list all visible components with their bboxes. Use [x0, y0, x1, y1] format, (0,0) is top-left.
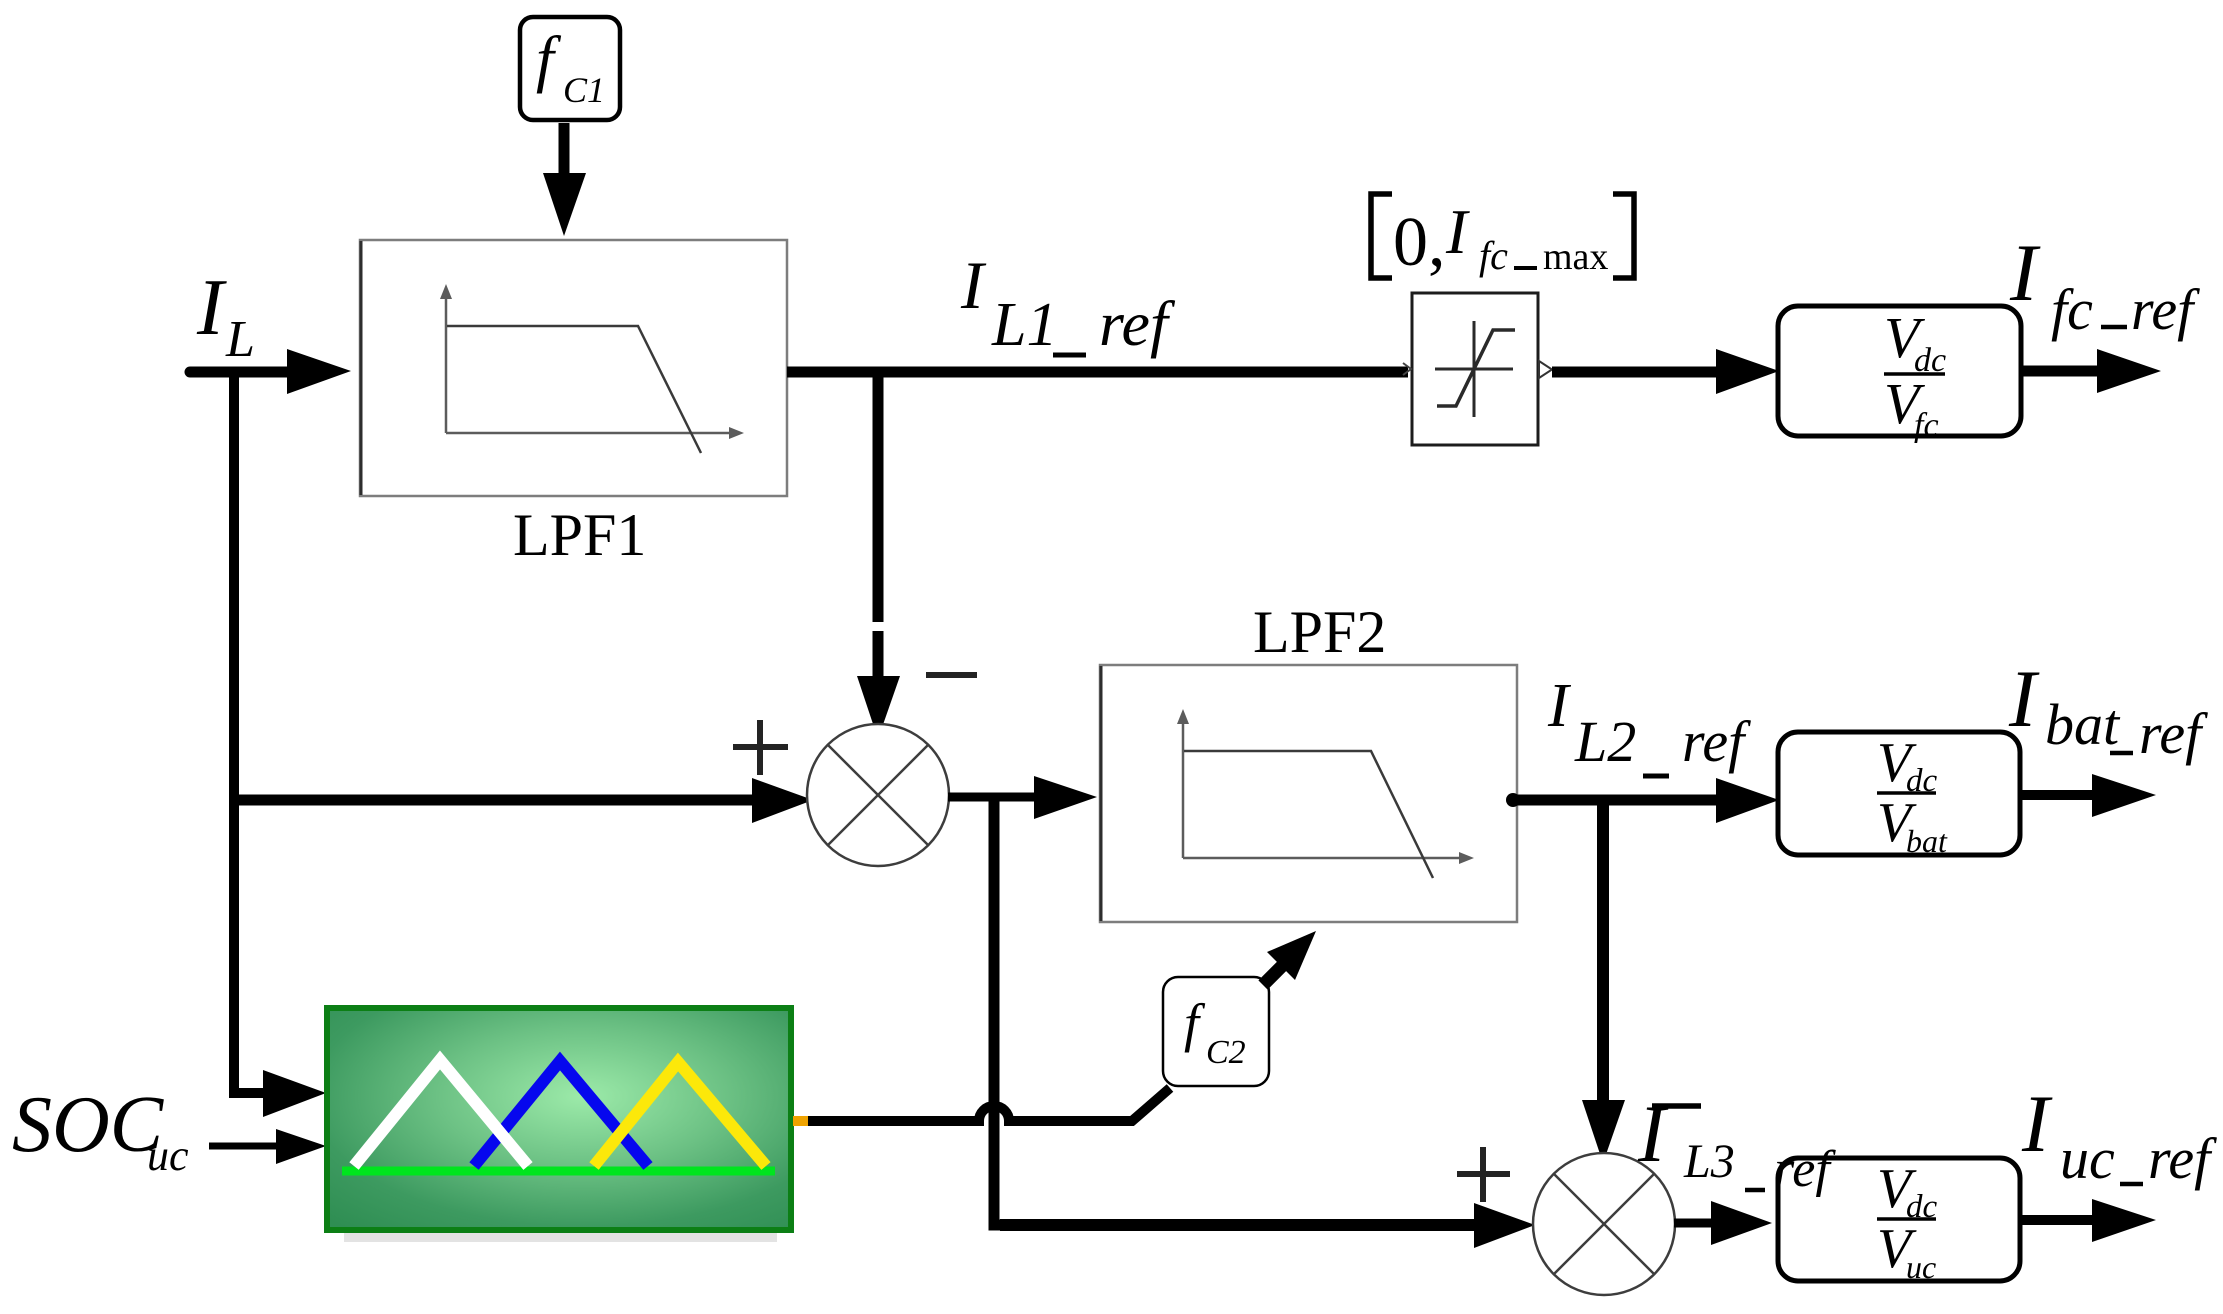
svg-text:ref: ref — [1099, 288, 1176, 359]
svg-text:I: I — [2009, 227, 2041, 318]
svg-text:max: max — [1543, 236, 1608, 278]
svg-text:ref: ref — [2139, 701, 2208, 766]
svg-text:uc: uc — [2060, 1126, 2115, 1191]
svg-text:I: I — [1445, 196, 1470, 267]
svg-text:L: L — [225, 311, 255, 368]
svg-text:LPF1: LPF1 — [513, 502, 646, 568]
svg-text:bat: bat — [2045, 692, 2121, 757]
svg-text:C1: C1 — [563, 70, 605, 110]
svg-text:0,: 0, — [1393, 204, 1446, 281]
svg-text:LPF2: LPF2 — [1253, 599, 1386, 665]
svg-text:C2: C2 — [1206, 1034, 1246, 1071]
svg-text:fc: fc — [2051, 277, 2093, 342]
svg-text:I: I — [2008, 653, 2040, 744]
svg-text:uc: uc — [1906, 1249, 1936, 1285]
svg-text:I: I — [2021, 1078, 2053, 1169]
svg-text:uc: uc — [147, 1131, 189, 1180]
svg-text:bat: bat — [1906, 823, 1948, 859]
svg-text:I: I — [1547, 672, 1572, 740]
svg-text:ref: ref — [1682, 709, 1751, 774]
svg-text:I: I — [960, 247, 987, 323]
svg-text:L3: L3 — [1683, 1135, 1735, 1188]
svg-text:L2: L2 — [1574, 709, 1636, 774]
svg-text:fc: fc — [1479, 233, 1508, 278]
svg-text:ref: ref — [1774, 1141, 1836, 1198]
svg-text:L1: L1 — [991, 291, 1057, 359]
svg-text:ref: ref — [2148, 1126, 2217, 1191]
svg-text:ref: ref — [2131, 277, 2200, 342]
svg-text:I: I — [196, 264, 227, 352]
svg-text:fc: fc — [1914, 407, 1939, 444]
svg-text:I: I — [1637, 1088, 1669, 1179]
svg-text:SOC: SOC — [12, 1081, 165, 1169]
